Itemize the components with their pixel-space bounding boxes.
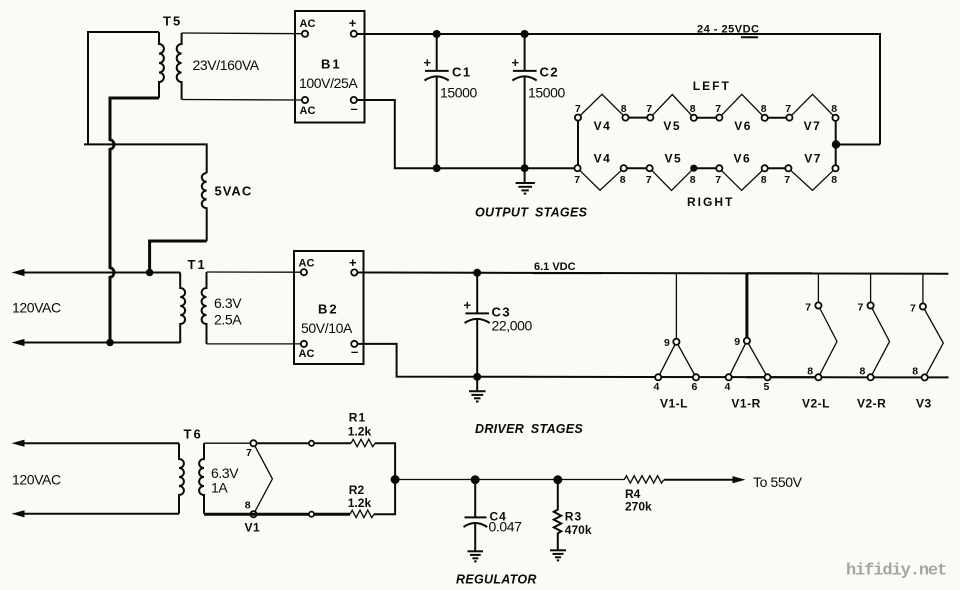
- svg-text:5: 5: [764, 381, 770, 393]
- svg-text:4: 4: [725, 381, 731, 393]
- svg-text:R2: R2: [349, 483, 365, 497]
- B2 terminal AC bottom: [301, 341, 307, 347]
- B2 terminal AC top: [301, 269, 307, 275]
- V3 pin 7 circle: [920, 303, 926, 309]
- svg-text:6.3V: 6.3V: [214, 295, 242, 311]
- C3 bottom junction dot: [473, 373, 481, 381]
- svg-text:T1: T1: [188, 257, 207, 272]
- tube labels bottom row V4 V5 V6 V7: [594, 151, 822, 165]
- svg-text:7: 7: [805, 302, 811, 314]
- svg-text:AC: AC: [299, 348, 315, 360]
- wire 120VAC lower line with left arrow: [22, 342, 180, 344]
- wire R1 to junction: [375, 443, 395, 475]
- ground symbol below C3: [469, 377, 486, 402]
- svg-text:AC: AC: [300, 105, 316, 117]
- pin circles top row: [575, 115, 839, 121]
- svg-text:1.2k: 1.2k: [348, 424, 372, 438]
- heater V7 left top: [789, 94, 835, 118]
- bridge rectifier B2 box: [294, 251, 364, 364]
- V3 pin 8 circle: [922, 374, 928, 380]
- svg-text:8: 8: [761, 174, 767, 186]
- V1-R pin 4 circle: [726, 374, 732, 380]
- wire 120VAC regulator upper line: [22, 442, 179, 444]
- tube V3 heater zigzag: [923, 307, 943, 378]
- heater V4 left top: [578, 94, 626, 117]
- resistor R2 zigzag: [350, 510, 374, 517]
- wire B2 minus down to driver ground rail: [357, 344, 948, 378]
- svg-text:7: 7: [646, 103, 652, 115]
- svg-text:V6: V6: [734, 151, 752, 165]
- wire R4 to output arrow: [664, 479, 733, 481]
- svg-text:7: 7: [246, 447, 252, 459]
- svg-text:6: 6: [692, 381, 698, 393]
- tube labels top row V4 V5 V6 V7: [594, 119, 822, 133]
- svg-text:15000: 15000: [528, 85, 566, 101]
- svg-text:+: +: [424, 55, 432, 70]
- svg-text:8: 8: [245, 500, 251, 512]
- resistor R3 vertical zigzag: [554, 480, 561, 550]
- pin number labels top row: [575, 103, 837, 115]
- svg-text:B1: B1: [321, 57, 342, 72]
- svg-text:4: 4: [654, 381, 660, 393]
- svg-text:AC: AC: [300, 18, 316, 30]
- svg-text:+: +: [349, 16, 357, 31]
- svg-text:8: 8: [690, 174, 696, 186]
- wire V7 bottom to right junction: [835, 145, 837, 169]
- svg-text:To 550V: To 550V: [753, 474, 803, 490]
- wire B1 minus down to ground rail: [357, 100, 574, 168]
- svg-text:7: 7: [574, 174, 580, 186]
- wire T5 secondary bottom to B1 AC: [182, 99, 302, 102]
- svg-text:C1: C1: [452, 65, 472, 80]
- regulator output line: [395, 479, 624, 481]
- V1-L pin labels: [654, 337, 698, 393]
- svg-text:24 - 25VDC: 24 - 25VDC: [697, 24, 759, 36]
- tube V1-L heater triangle legs: [658, 342, 696, 378]
- arrowhead 120VAC lower: [12, 339, 25, 346]
- tube V1-R heater: thick feed wire: [745, 273, 748, 338]
- B2 terminal minus: [351, 341, 357, 347]
- svg-text:1.2k: 1.2k: [348, 496, 372, 510]
- left column wire joining LEFT and RIGHT strings: [577, 118, 579, 169]
- transformer T1 secondary winding: [202, 272, 207, 344]
- V1-L pin 4 circle: [655, 374, 661, 380]
- svg-text:23V/160VA: 23V/160VA: [193, 57, 260, 73]
- ground symbol below R3: [550, 550, 566, 560]
- svg-text:V6: V6: [734, 119, 752, 133]
- svg-text:+: +: [512, 55, 520, 70]
- svg-text:T6: T6: [184, 427, 203, 442]
- wire link V5-V6 top: [694, 117, 720, 119]
- B1 terminal AC top: [302, 31, 308, 37]
- wire link V4-V5 bottom: [624, 167, 650, 169]
- junction dot at 120VAC lower line: [106, 339, 114, 347]
- ground symbol below C4: [468, 551, 484, 561]
- svg-text:V2-L: V2-L: [802, 397, 830, 411]
- V1 pin 8 circle: [250, 511, 256, 517]
- tube V2-R heater: feed wire: [870, 274, 872, 303]
- thick overlay on 6.1VDC rail near V1-R: [747, 272, 812, 274]
- wire junction to 24-25VDC rail: [836, 144, 880, 146]
- arrowhead 120VAC upper: [12, 269, 25, 276]
- svg-text:V3: V3: [916, 397, 932, 411]
- wire 120VAC upper line with left arrow: [22, 272, 180, 274]
- V2-L pin 8 circle: [815, 374, 821, 380]
- wire T1 secondary bottom to B2 AC: [207, 343, 302, 345]
- resistor R1 zigzag: [351, 439, 375, 446]
- svg-text:DRIVER STAGES: DRIVER STAGES: [475, 422, 583, 436]
- svg-text:B2: B2: [318, 302, 339, 317]
- svg-text:7: 7: [715, 103, 721, 115]
- svg-text:T5: T5: [163, 14, 182, 29]
- V3 pin labels: [910, 303, 918, 378]
- heater V4 right bottom: [578, 168, 624, 190]
- wire R2 to junction: [374, 483, 395, 514]
- svg-text:9: 9: [664, 337, 670, 349]
- B1 terminal AC bottom: [302, 97, 308, 103]
- tube V2-L heater zigzag: [818, 306, 837, 378]
- svg-text:50V/10A: 50V/10A: [301, 320, 353, 336]
- wire V1 pin7 to R1: [257, 442, 351, 444]
- heater V7 right bottom: [788, 168, 835, 190]
- svg-text:8: 8: [831, 174, 837, 186]
- svg-text:V2-R: V2-R: [857, 397, 886, 411]
- V1 pin 7 circle: [250, 440, 256, 446]
- svg-text:RIGHT: RIGHT: [687, 195, 734, 209]
- svg-text:V5: V5: [665, 151, 683, 165]
- V1 pin labels: [245, 447, 252, 512]
- transformer T6 primary winding: [179, 443, 184, 514]
- resistor R4 zigzag: [624, 476, 664, 483]
- svg-text:6.1 VDC: 6.1 VDC: [534, 261, 576, 273]
- transformer T6 secondary winding: [199, 443, 204, 514]
- svg-text:V4: V4: [594, 151, 612, 165]
- V2-R pin labels: [858, 302, 866, 378]
- svg-text:0.047: 0.047: [489, 519, 523, 535]
- C1 bottom junction dot: [433, 164, 441, 172]
- wire horizontal to 5VAC winding: [84, 144, 207, 173]
- wire link V5-V6 bottom: [694, 167, 720, 169]
- wire T5 primary top to left vertical: [88, 32, 159, 144]
- V1-L pin 6 circle: [693, 374, 699, 380]
- junction dot at C4: [471, 475, 480, 484]
- tube V1-R heater triangle legs: [729, 341, 768, 378]
- tube V1-L heater: feed wire: [675, 273, 677, 339]
- capacitor C2 body: [512, 34, 536, 168]
- heater V6 right bottom: [719, 168, 764, 190]
- svg-text:R1: R1: [349, 411, 366, 425]
- svg-text:8: 8: [620, 174, 626, 186]
- svg-text:+: +: [349, 255, 357, 270]
- wire V1 pin8 to R2 (thick): [204, 513, 350, 516]
- thick overlay on ground rail between V1-R and V2-L: [746, 376, 818, 378]
- svg-text:7: 7: [784, 174, 790, 186]
- capacitor C1 positive lead with junction: [433, 30, 441, 38]
- svg-text:7: 7: [910, 303, 916, 315]
- heater V5 right bottom: [650, 168, 694, 190]
- V1-R pin labels: [725, 336, 770, 393]
- capacitor C3 body: [465, 273, 490, 377]
- underline tick under rail label: [741, 36, 758, 38]
- wire link V4-V5 top: [626, 117, 651, 119]
- arrowhead regulator lower: [12, 510, 25, 517]
- inductor 5VAC winding: [202, 173, 207, 241]
- svg-text:8: 8: [912, 366, 918, 378]
- pin circles bottom row (V5 pin8 filled): [574, 165, 838, 172]
- svg-text:V4: V4: [594, 119, 612, 133]
- arrowhead regulator upper: [12, 440, 25, 447]
- tube V2-R heater zigzag: [871, 306, 890, 378]
- wire link V6-V7 top: [765, 117, 790, 119]
- V2-L pin labels: [805, 302, 813, 378]
- svg-text:V5: V5: [663, 119, 681, 133]
- junction dot 5VAC to line: [146, 269, 154, 277]
- svg-text:1A: 1A: [211, 480, 228, 496]
- svg-text:7: 7: [646, 174, 652, 186]
- wire V7 top to right junction: [835, 118, 837, 145]
- wire T5 primary bottom, vertical with hops over crossings: [110, 98, 159, 343]
- svg-text:LEFT: LEFT: [693, 79, 731, 93]
- wire T6 secondary top to V1 pin7: [204, 442, 250, 444]
- svg-text:8: 8: [807, 365, 813, 377]
- svg-text:7: 7: [785, 103, 791, 115]
- svg-text:120VAC: 120VAC: [12, 300, 61, 316]
- svg-text:270k: 270k: [625, 500, 652, 514]
- junction dot R1/R2: [391, 475, 400, 484]
- junction dot right side of strings: [832, 140, 840, 148]
- wire 5VAC bottom to junction on 120VAC line: [150, 241, 207, 273]
- V2-L pin 7 circle: [815, 302, 821, 308]
- C2 bottom junction dot: [521, 164, 529, 172]
- svg-text:7: 7: [575, 103, 581, 115]
- wire T1 secondary top to B2 AC: [207, 271, 302, 273]
- svg-text:V1-L: V1-L: [660, 397, 688, 411]
- V1-R pin 9 circle: [744, 338, 750, 344]
- svg-text:8: 8: [690, 103, 696, 115]
- svg-text:8: 8: [621, 103, 627, 115]
- capacitor C3 top junction dot: [473, 269, 481, 277]
- connector circle on upper wire: [309, 441, 314, 446]
- svg-text:7: 7: [858, 302, 864, 314]
- svg-text:5VAC: 5VAC: [215, 184, 253, 199]
- svg-text:V1: V1: [245, 521, 261, 535]
- svg-text:2.5A: 2.5A: [214, 312, 242, 328]
- B1 terminal plus: [351, 31, 357, 37]
- V1-R pin 5 circle: [764, 374, 770, 380]
- transformer T5 secondary winding: [177, 33, 182, 100]
- svg-text:hifidiy.net: hifidiy.net: [846, 562, 946, 581]
- wire 120VAC regulator lower line: [22, 513, 179, 515]
- transformer T1 primary winding: [180, 273, 185, 344]
- junction dot at R3: [553, 475, 562, 484]
- svg-text:22,000: 22,000: [492, 318, 533, 334]
- capacitor C4 body: [464, 480, 488, 551]
- svg-text:C2: C2: [540, 65, 560, 80]
- V2-R pin 8 circle: [868, 374, 874, 380]
- transformer T5 primary winding: [159, 32, 164, 98]
- svg-text:AC: AC: [299, 258, 315, 270]
- svg-text:15000: 15000: [440, 85, 478, 101]
- capacitor C1 body: [425, 34, 449, 168]
- svg-text:120VAC: 120VAC: [12, 472, 61, 488]
- wire B1 plus to top rail 24-25VDC: [357, 34, 880, 145]
- ground symbol below C2: [516, 168, 535, 193]
- wire T5 secondary top to B1 AC: [182, 32, 302, 35]
- heater V5 left top: [650, 95, 694, 118]
- bridge rectifier B1 box: [295, 11, 365, 123]
- svg-text:+: +: [464, 298, 472, 313]
- tube V3 heater: feed wire: [922, 274, 924, 304]
- svg-text:8: 8: [761, 103, 767, 115]
- svg-text:OUTPUT STAGES: OUTPUT STAGES: [475, 205, 588, 219]
- svg-text:8: 8: [860, 365, 866, 377]
- V2-R pin 7 circle: [868, 302, 874, 308]
- svg-text:V1-R: V1-R: [731, 397, 760, 411]
- tube V2-L heater: feed wire: [817, 273, 819, 302]
- svg-text:REGULATOR: REGULATOR: [456, 573, 537, 587]
- svg-text:V7: V7: [804, 119, 822, 133]
- svg-text:R3: R3: [565, 510, 582, 524]
- V1-L pin 9 circle: [673, 339, 679, 345]
- svg-text:100V/25A: 100V/25A: [299, 75, 358, 91]
- svg-text:V7: V7: [804, 151, 822, 165]
- underline tick under 6.1VDC label: [533, 272, 601, 274]
- heater V6 left top: [719, 94, 764, 118]
- svg-text:9: 9: [734, 336, 740, 348]
- svg-text:7: 7: [715, 174, 721, 186]
- capacitor C2 top junction: [521, 30, 529, 38]
- tube V1 heater zigzag: [254, 443, 273, 514]
- arrowhead To 550V: [733, 476, 746, 483]
- connector circle on lower wire: [309, 512, 314, 517]
- wire link V6-V7 bottom: [765, 167, 789, 169]
- B1 terminal minus: [351, 97, 357, 103]
- B2 terminal plus: [351, 269, 357, 275]
- svg-text:8: 8: [831, 103, 837, 115]
- svg-text:470k: 470k: [565, 523, 592, 537]
- wire B2 plus to 6.1VDC rail: [357, 273, 948, 274]
- pin number labels bottom row: [574, 174, 837, 186]
